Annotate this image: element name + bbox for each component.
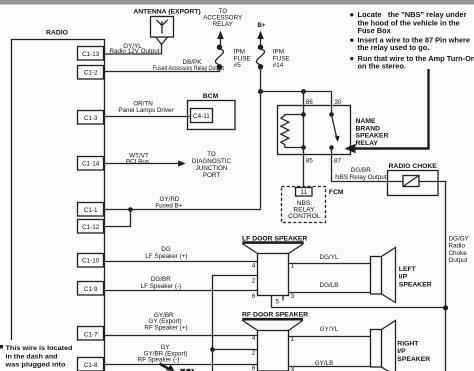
wire C1-1 fused B+ <box>105 209 261 211</box>
svg-text:Output: Output <box>449 257 468 264</box>
svg-text:#14: #14 <box>273 62 284 69</box>
fuse IPM #5 <box>215 45 223 70</box>
svg-text:11: 11 <box>301 189 308 196</box>
label NAME BRAND SPEAKER RELAY <box>356 118 389 147</box>
node relay coil tap <box>301 89 306 94</box>
svg-text:6: 6 <box>252 293 256 300</box>
svg-text:Panel Lamps Driver: Panel Lamps Driver <box>118 107 173 114</box>
wire C1-14 PCI bus <box>105 160 186 166</box>
label DG/BR LF Speaker (-) <box>141 276 182 290</box>
label DG LF Speaker (+) <box>145 246 187 260</box>
svg-text:Fused Accessory Relay Output: Fused Accessory Relay Output <box>153 65 224 72</box>
svg-text:C1-10: C1-10 <box>82 257 100 264</box>
svg-text:#5: #5 <box>234 62 242 69</box>
svg-text:DIAGNOSTIC: DIAGNOSTIC <box>192 158 232 165</box>
wire C1-13 radio 12V output <box>105 53 162 55</box>
label IPM FUSE #14 <box>273 49 290 70</box>
svg-text:was plugged into: was plugged into <box>4 362 65 369</box>
connector C1-1 <box>78 203 104 217</box>
svg-text:85: 85 <box>306 158 314 165</box>
svg-text:This wire is located: This wire is located <box>6 345 73 352</box>
svg-text:GY/LB: GY/LB <box>315 360 334 367</box>
scan border top <box>0 0 474 5</box>
label OR/TN Panel Lamps Driver <box>118 101 173 114</box>
node coil bottom <box>301 145 306 150</box>
notes NBS relay instructions <box>350 10 474 71</box>
svg-text:C1-8: C1-8 <box>84 362 98 369</box>
svg-text:2: 2 <box>252 349 256 356</box>
wire C1-10 LF speaker + <box>105 261 258 263</box>
svg-text:C1-14: C1-14 <box>82 160 100 167</box>
wire relay supply rail <box>261 91 332 93</box>
svg-text:DG/BR: DG/BR <box>351 167 371 174</box>
connector C1-7 <box>78 327 104 341</box>
svg-text:6: 6 <box>252 365 256 371</box>
svg-text:C1-7: C1-7 <box>84 331 98 338</box>
svg-text:RADIO CHOKE: RADIO CHOKE <box>389 163 438 170</box>
svg-text:BCM: BCM <box>203 93 219 100</box>
svg-text:RF DOOR SPEAKER: RF DOOR SPEAKER <box>242 311 308 318</box>
wire C1-12 <box>105 210 131 227</box>
svg-text:Fuse Box: Fuse Box <box>358 26 392 35</box>
wire C1-8 RF speaker - <box>105 364 258 366</box>
svg-text:C1-2: C1-2 <box>84 70 98 77</box>
svg-text:LF Speaker (-): LF Speaker (-) <box>141 283 182 290</box>
svg-text:DG/GY: DG/GY <box>449 235 470 242</box>
LF pin 5 tab <box>272 296 284 308</box>
svg-text:4: 4 <box>252 262 256 269</box>
radio unit box <box>12 40 105 371</box>
svg-text:DG/YL: DG/YL <box>320 254 339 261</box>
wire LF pin1 DG/YL <box>289 263 371 265</box>
connector C1-10 <box>78 254 104 268</box>
svg-text:DG: DG <box>161 246 171 253</box>
svg-text:B+: B+ <box>257 22 266 29</box>
wire B+ feed vertical <box>260 67 262 92</box>
svg-text:ANTENNA (EXPORT): ANTENNA (EXPORT) <box>133 9 200 16</box>
svg-text:RELAY: RELAY <box>213 21 234 28</box>
svg-text:Fused B+: Fused B+ <box>155 202 182 209</box>
svg-text:NBS Relay Output: NBS Relay Output <box>335 174 387 181</box>
svg-text:C1-1: C1-1 <box>84 207 98 214</box>
svg-text:JUNCTION: JUNCTION <box>196 165 228 172</box>
svg-text:86: 86 <box>306 99 314 106</box>
label NBS RELAY CONTROL <box>288 200 321 220</box>
svg-text:on the stereo.: on the stereo. <box>358 62 406 71</box>
arrow wire pointer <box>160 364 194 371</box>
antenna A1 <box>151 17 174 55</box>
svg-text:TO: TO <box>207 151 216 158</box>
svg-text:SPEAKER: SPEAKER <box>399 281 432 288</box>
svg-text:LEFT: LEFT <box>399 266 417 273</box>
svg-text:Radio 12V Output: Radio 12V Output <box>109 48 159 55</box>
wire C1-7 RF speaker + <box>105 335 258 337</box>
annotation arrow to pin 87 <box>345 69 429 153</box>
label GY/RD Fused B+ <box>155 196 182 210</box>
relay U1 NBS box <box>278 106 351 155</box>
label LEFT I/P SPEAKER <box>399 266 432 289</box>
svg-text:CONTROL: CONTROL <box>288 213 321 220</box>
node RF pin2 junction <box>210 347 215 352</box>
wire C1-2 fused accessory relay output <box>105 67 220 72</box>
label WT/VT PCI Bus <box>126 152 149 165</box>
arrow B+ <box>257 31 264 46</box>
module BCM <box>188 101 236 130</box>
svg-text:RIGHT: RIGHT <box>397 340 419 347</box>
connector C1-3 <box>78 111 104 125</box>
svg-text:Radio: Radio <box>449 243 466 250</box>
note this wire is located <box>0 345 73 369</box>
svg-text:NAME: NAME <box>356 118 376 125</box>
wire pin30 drop <box>331 92 333 115</box>
relay coil <box>281 114 304 148</box>
svg-text:C1-12: C1-12 <box>82 224 100 231</box>
arrow to accessory relay <box>217 31 224 45</box>
label IPM FUSE #5 <box>234 49 251 70</box>
wire LF pin3 DG/LB <box>289 292 371 294</box>
relay switch blade <box>329 112 339 150</box>
RF door speaker horn <box>242 319 303 330</box>
svg-text:4: 4 <box>252 334 256 341</box>
svg-text:DG/LB: DG/LB <box>320 282 339 289</box>
svg-text:RF Speaker (+): RF Speaker (+) <box>144 324 187 331</box>
label RIGHT I/P SPEAKER <box>397 340 430 363</box>
svg-text:FCM: FCM <box>329 189 344 196</box>
connector C1-13 <box>78 47 104 61</box>
wire relay pin86 to pin85 vertical <box>303 92 305 188</box>
svg-text:SPEAKER: SPEAKER <box>356 133 389 140</box>
svg-text:87: 87 <box>334 158 342 165</box>
svg-text:I/P: I/P <box>397 348 406 355</box>
label GY/BR GY (Export) RF Speaker (+) <box>144 312 187 332</box>
wire to RF pin2 <box>213 349 258 351</box>
svg-text:SPEAKER: SPEAKER <box>397 356 430 363</box>
speaker LEFT I/P <box>371 248 396 303</box>
svg-text:PORT: PORT <box>203 172 221 179</box>
connector C1-8 <box>78 358 104 371</box>
svg-text:C1-9: C1-9 <box>84 286 98 293</box>
label DB/PK Fused Accessory Relay Output <box>153 59 224 72</box>
svg-text:2: 2 <box>252 277 256 284</box>
speaker RIGHT I/P <box>371 321 396 371</box>
wire RF pin1 GY/YL <box>289 336 371 338</box>
connector C1-14 <box>78 157 104 171</box>
node coil top <box>301 112 306 117</box>
svg-text:the relay used to go.: the relay used to go. <box>358 43 430 52</box>
svg-text:in the dash and: in the dash and <box>6 353 58 360</box>
label DG/BR NBS Relay Output <box>335 167 387 181</box>
wire pin87 NBS relay output <box>332 148 388 182</box>
node choke output junction <box>443 305 448 310</box>
wire RF pin3 GY/LB <box>289 366 371 368</box>
label GY GY/BR (Export) RF Speaker (-) <box>138 344 188 363</box>
svg-text:LF Speaker (+): LF Speaker (+) <box>145 253 187 260</box>
wire LF pin2 common vertical <box>213 276 258 371</box>
svg-text:PCI Bus: PCI Bus <box>126 158 149 165</box>
svg-text:30: 30 <box>334 99 342 106</box>
svg-text:5: 5 <box>276 298 280 305</box>
radio choke box <box>388 171 439 196</box>
svg-text:GY/YL: GY/YL <box>320 326 339 333</box>
connector C1-2 <box>78 66 104 80</box>
connector C1-12 <box>78 220 104 234</box>
wire LF pin5 to choke output <box>272 307 446 309</box>
svg-text:C1-3: C1-3 <box>84 115 98 122</box>
svg-text:RELAY: RELAY <box>356 140 379 147</box>
FCM pin 11 <box>296 188 313 197</box>
wire DG/GY radio choke output <box>438 182 446 371</box>
svg-text:C4-11: C4-11 <box>193 113 210 120</box>
connector C4-11 <box>191 109 213 123</box>
label DG/GY Radio Choke Output <box>449 235 470 264</box>
svg-text:C1-13: C1-13 <box>82 51 100 58</box>
node C1-12 junction <box>128 207 133 212</box>
module FCM dashed <box>282 187 326 223</box>
LF door speaker horn <box>242 243 303 254</box>
RF door speaker body <box>258 331 289 371</box>
choke L1 symbol <box>388 176 439 187</box>
svg-text:BRAND: BRAND <box>356 125 381 132</box>
connector C1-9 <box>78 282 104 296</box>
svg-text:Choke: Choke <box>449 250 468 257</box>
svg-text:RADIO: RADIO <box>46 30 68 37</box>
node B+ rail junction <box>258 89 263 94</box>
fuse IPM #14 <box>256 45 264 70</box>
wire C1-9 LF speaker - <box>105 290 258 292</box>
svg-text:I/P: I/P <box>399 274 408 281</box>
wire fused B+ drop <box>260 92 262 210</box>
label TO DIAGNOSTIC JUNCTION PORT <box>192 151 232 179</box>
label TO ACCESSORY RELAY <box>203 8 243 28</box>
svg-text:RF Speaker (-): RF Speaker (-) <box>138 357 180 364</box>
label GY/YL Radio 12V Output <box>109 43 159 55</box>
wire C1-3 panel lamps driver <box>105 116 191 118</box>
svg-text:3: 3 <box>291 293 295 300</box>
LF door speaker body <box>258 254 289 296</box>
